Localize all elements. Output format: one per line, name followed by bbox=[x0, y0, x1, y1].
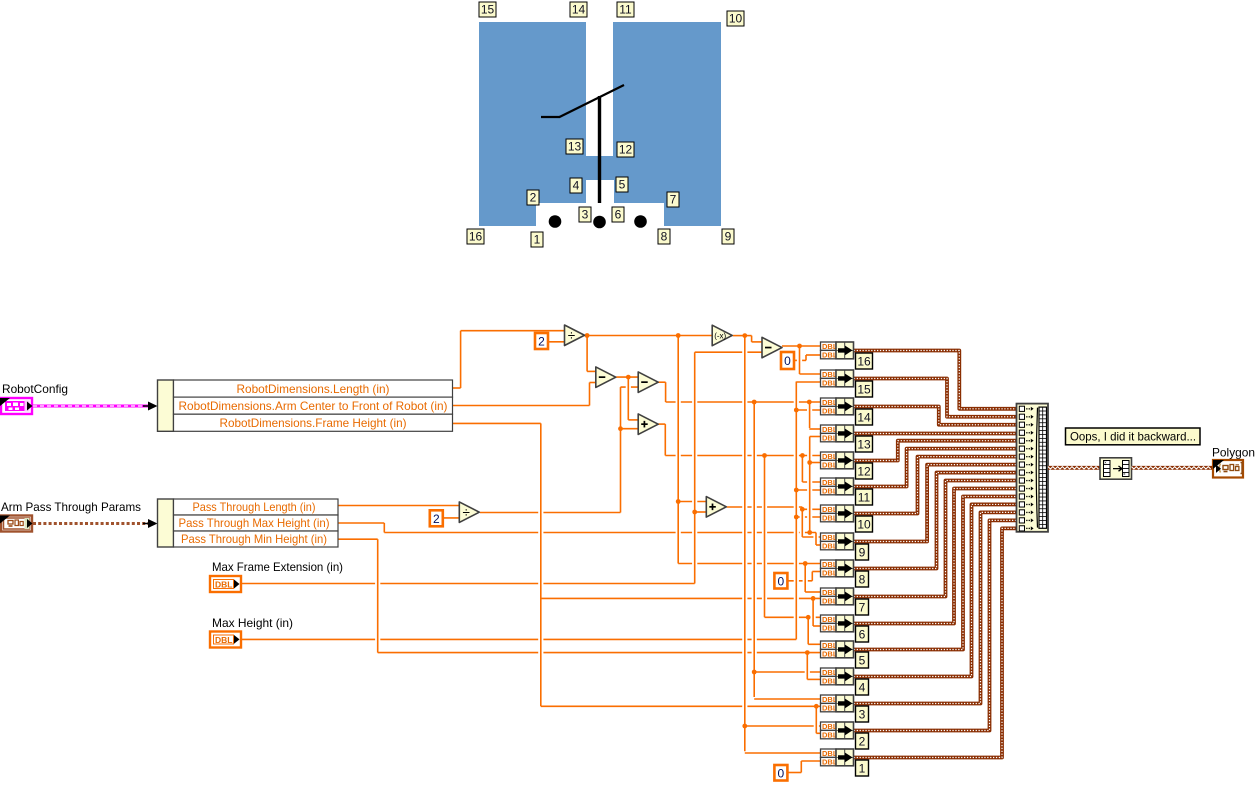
svg-text:×: × bbox=[1123, 472, 1126, 477]
wire drop subtract2 out bbox=[665, 382, 667, 402]
svg-text:13: 13 bbox=[857, 438, 871, 452]
wire to subtract1 top bbox=[587, 370, 596, 372]
bundle node 12 bbox=[836, 452, 854, 469]
cluster wire bundle 5 to array input 12 bbox=[854, 496, 1017, 649]
svg-text:2: 2 bbox=[538, 335, 545, 349]
DBL conversion pair bundle 8 bbox=[821, 560, 838, 577]
vertex label 2 bbox=[527, 190, 539, 205]
DBL conversion pair bundle 1 bbox=[821, 749, 838, 766]
wire to add1 top bbox=[628, 419, 638, 421]
svg-text:3: 3 bbox=[859, 708, 866, 722]
robot arm wrist line bbox=[541, 116, 560, 118]
robot body polygon (points 1-16) bbox=[479, 22, 721, 226]
bundle output label 16 bbox=[856, 353, 873, 369]
wire to bundle4 y bbox=[807, 678, 820, 680]
cluster wire bundle 16 to array input 1 bbox=[854, 351, 1017, 409]
wire drop PassMax to bundle9y bbox=[815, 533, 817, 546]
wire to bundle6 x bbox=[765, 616, 821, 618]
unbundle RobotDimensions bar bbox=[158, 380, 174, 431]
cluster wire bundle 2 to array input 15 bbox=[854, 520, 1017, 730]
svg-text:6: 6 bbox=[615, 208, 622, 222]
svg-text:15: 15 bbox=[481, 3, 495, 17]
wire const0c to bundle1 y seg1 bbox=[788, 772, 801, 774]
wire PassLength out of unbundle bbox=[338, 505, 459, 507]
bundle output label 11 bbox=[856, 489, 873, 505]
wire add2 to bundle10 x bbox=[727, 506, 803, 508]
svg-text:Pass Through Max Height (in): Pass Through Max Height (in) bbox=[179, 516, 330, 530]
bundle node 1 bbox=[836, 749, 854, 766]
bundle output label 1 bbox=[856, 760, 869, 776]
cluster wire bundle 8 to array input 9 bbox=[854, 473, 1017, 569]
add node 2 bbox=[706, 497, 726, 517]
svg-text:10: 10 bbox=[729, 12, 743, 26]
wire drop subtract2 to bundle13x bbox=[809, 402, 811, 428]
svg-text:×: × bbox=[1104, 460, 1107, 465]
svg-text:12: 12 bbox=[619, 143, 633, 157]
wire negate output bbox=[733, 335, 745, 337]
svg-text:(-x): (-x) bbox=[714, 331, 726, 340]
wire to subtract1 bottom bbox=[590, 382, 596, 384]
DBL conversion pair bundle 7 bbox=[821, 588, 838, 605]
wire junction dots bbox=[585, 333, 819, 728]
constant 2 (bottom divider) bbox=[430, 510, 443, 526]
wire PassMin to bundle5 y bbox=[378, 652, 821, 654]
cluster wire bundle 6 to array input 11 bbox=[854, 489, 1017, 624]
svg-text:10: 10 bbox=[857, 518, 871, 532]
wire drop div1 to subtract1 bbox=[586, 336, 588, 372]
wire drop add1 out bbox=[664, 424, 666, 455]
wire PassMin out of unbundle bbox=[338, 538, 378, 540]
wire to bundle2 x bbox=[745, 725, 821, 727]
DBL conversion pair bundle 11 bbox=[821, 478, 838, 495]
wire const0b jog bbox=[811, 572, 813, 581]
svg-text:14: 14 bbox=[572, 3, 586, 17]
vertex label 15 bbox=[479, 2, 496, 17]
bundle node 9 bbox=[836, 533, 854, 550]
vertex label 11 bbox=[617, 2, 634, 17]
svg-text:2: 2 bbox=[530, 191, 537, 205]
bundle output label 3 bbox=[856, 706, 869, 722]
svg-text:11: 11 bbox=[858, 491, 871, 505]
bundle node 8 bbox=[836, 560, 854, 577]
wire MaxHeight to bundle11 y bbox=[796, 489, 820, 491]
wire MaxHeight to bundle15 y bbox=[796, 381, 820, 383]
bundle node 15 bbox=[836, 370, 854, 387]
wire add1 branch to bundle11x bbox=[801, 456, 803, 483]
wire to bundle3 x bbox=[754, 698, 820, 700]
array wire build array to reverse node bbox=[1048, 466, 1100, 470]
svg-text:÷: ÷ bbox=[463, 505, 470, 520]
bundle node 7 bbox=[836, 588, 854, 605]
bundle node 5 bbox=[836, 641, 854, 658]
svg-text:Pass Through Length (in): Pass Through Length (in) bbox=[193, 500, 316, 514]
svg-text:Max Height (in): Max Height (in) bbox=[212, 616, 293, 630]
arrow into unbundle2 bbox=[148, 519, 158, 528]
wire riser MaxFrameExt bbox=[694, 352, 696, 583]
wire drop to bundle7x bbox=[804, 564, 806, 593]
unbundle2 row Pass Through Length (in) bbox=[174, 499, 339, 515]
bundle node 11 bbox=[836, 478, 854, 495]
DBL conversion pair bundle 9 bbox=[821, 533, 838, 550]
wire const2a to divider bbox=[548, 341, 565, 343]
svg-text:8: 8 bbox=[661, 230, 668, 244]
wire to bundle12 y bbox=[810, 462, 821, 464]
svg-text:5: 5 bbox=[859, 654, 866, 668]
wire divider2 output bbox=[480, 512, 621, 514]
wheel center bbox=[593, 216, 606, 229]
label Oops I did it backward bbox=[1066, 428, 1201, 445]
wire subtract2 output bbox=[658, 381, 665, 383]
wire const0c to bundle1 y seg2 bbox=[801, 760, 820, 762]
constant 0 (bundle8) bbox=[774, 573, 787, 589]
wire const2b to divider2 bbox=[443, 517, 460, 519]
vertex label 16 bbox=[467, 229, 484, 244]
wire FrameHeight to bundle7 y bbox=[541, 597, 821, 599]
wire subtract3 to bundle16 x bbox=[782, 345, 821, 347]
svg-text:6: 6 bbox=[859, 628, 866, 642]
svg-text:7: 7 bbox=[859, 601, 866, 615]
bundle node 3 bbox=[836, 695, 854, 712]
wire FrameHeight out of unbundle bbox=[452, 422, 541, 424]
svg-text:2: 2 bbox=[859, 735, 866, 749]
wire drop add1 branch bbox=[764, 456, 766, 618]
wire MaxHeight long bbox=[241, 638, 796, 640]
bundle output label 7 bbox=[856, 599, 869, 615]
vertex label 10 bbox=[727, 11, 744, 26]
wire drop negate bbox=[744, 336, 746, 752]
svg-text:Max Frame Extension (in): Max Frame Extension (in) bbox=[212, 560, 343, 574]
cluster wire bundle 7 to array input 10 bbox=[854, 481, 1017, 597]
constant 0 (bundle16) bbox=[781, 352, 794, 369]
wire PassMax riser to bundle13y bbox=[809, 437, 811, 533]
vertex label 3 bbox=[579, 207, 591, 222]
svg-text:RobotDimensions.Arm Center to: RobotDimensions.Arm Center to Front of R… bbox=[179, 399, 448, 413]
cluster wire bundle 10 to array input 7 bbox=[854, 457, 1017, 514]
unbundle1 row RobotDimensions.Length (in) bbox=[174, 380, 453, 397]
vertex label 7 bbox=[667, 192, 679, 207]
constant 0 (bundle1) bbox=[774, 765, 787, 781]
wire subtract2 to bundle14 x bbox=[666, 401, 821, 403]
wire to bundle5 x bbox=[808, 643, 820, 645]
cluster wire bundle 3 to array input 14 bbox=[854, 512, 1017, 703]
svg-text:8: 8 bbox=[859, 573, 866, 587]
svg-text:0: 0 bbox=[784, 354, 791, 368]
wire to bundle9 y bbox=[816, 544, 821, 546]
cluster wire bundle 12 to array input 5 bbox=[854, 441, 1017, 461]
svg-text:12: 12 bbox=[857, 465, 871, 479]
svg-text:RobotDimensions.Length (in): RobotDimensions.Length (in) bbox=[237, 382, 390, 396]
wire ArmCenter out of unbundle bbox=[452, 405, 590, 407]
wire to add1 bottom bbox=[621, 428, 639, 430]
wire add2 to bundle10 x stub bbox=[802, 508, 820, 510]
indicator Polygon bbox=[1213, 460, 1243, 478]
wire add1 to bundle12 x bbox=[665, 455, 820, 457]
wire const0a to bundle16 y seg1 bbox=[794, 359, 806, 361]
bundle output label 6 bbox=[856, 626, 869, 642]
svg-text:Oops, I did it backward...: Oops, I did it backward... bbox=[1070, 431, 1196, 444]
bundle output label 2 bbox=[856, 733, 869, 749]
wire to bundle11 x bbox=[802, 481, 820, 483]
robot arm vertical line bbox=[598, 96, 601, 203]
build array node bbox=[1017, 404, 1049, 532]
wire const0b to bundle8 y seg2 bbox=[812, 571, 820, 573]
cluster wire bundle 9 to array input 8 bbox=[854, 465, 1017, 542]
wire Length/2 to add2 top bbox=[678, 501, 706, 503]
bundle node 10 bbox=[836, 505, 854, 522]
wheel right bbox=[634, 215, 647, 228]
negate node (-x) bbox=[712, 325, 732, 346]
DBL conversion pair bundle 16 bbox=[821, 342, 838, 359]
svg-text:4: 4 bbox=[573, 179, 580, 193]
DBL conversion pair bundle 5 bbox=[821, 641, 838, 658]
svg-text:RobotDimensions.Frame Height (: RobotDimensions.Frame Height (in) bbox=[220, 416, 407, 430]
svg-text:11: 11 bbox=[619, 3, 632, 17]
DBL conversion pair bundle 15 bbox=[821, 370, 838, 387]
cluster wire bundle 1 to array input 16 bbox=[854, 528, 1017, 757]
unbundle1 row RobotDimensions.Frame Height (in) bbox=[174, 414, 453, 431]
wire const0a to bundle16 y seg2 bbox=[806, 354, 821, 356]
DBL conversion pair bundle 13 bbox=[821, 425, 838, 442]
wire crossing gaps bbox=[375, 351, 819, 728]
wire riser Length bbox=[460, 331, 462, 388]
wire drop Length/2 to add2 bbox=[677, 336, 679, 564]
wire divider1 output bbox=[584, 335, 713, 337]
vertex label 6 bbox=[612, 207, 624, 222]
svg-text:9: 9 bbox=[725, 230, 732, 244]
wire MaxHeight to bundle10 y bbox=[796, 516, 820, 518]
bundle output label 15 bbox=[856, 381, 873, 397]
bundle output label 13 bbox=[856, 436, 873, 452]
unbundle1 row RobotDimensions.Arm Center to Front of Robot (in) bbox=[174, 397, 453, 414]
wire drop PassMax bbox=[383, 523, 385, 533]
wire to bundle13 x bbox=[809, 428, 820, 430]
DBL conversion pair bundle 2 bbox=[821, 722, 838, 739]
cluster wire bundle 13 to array input 4 bbox=[854, 432, 1017, 436]
wire to subtract2 bottom bbox=[621, 386, 639, 388]
vertex label 13 bbox=[566, 139, 583, 154]
wire drop to bundle6y bbox=[812, 598, 814, 626]
svg-text:16: 16 bbox=[857, 355, 871, 369]
control Max Frame Extension DBL bbox=[210, 576, 241, 592]
wire ArmPassThrough cluster (brown dotted) bbox=[33, 522, 149, 525]
DBL conversion pair bundle 4 bbox=[821, 668, 838, 685]
wire add1 output bbox=[658, 423, 665, 425]
wire MaxFrameExt to subtract3 bottom bbox=[695, 351, 762, 353]
svg-text:0: 0 bbox=[778, 574, 785, 588]
DBL conversion pair bundle 3 bbox=[821, 695, 838, 712]
svg-text:3: 3 bbox=[582, 208, 589, 222]
subtract node 1 bbox=[596, 367, 616, 388]
robot arm diagonal line bbox=[560, 85, 625, 117]
bundle node 16 bbox=[836, 342, 854, 359]
svg-text:14: 14 bbox=[857, 411, 871, 425]
bundle output label 12 bbox=[856, 463, 873, 479]
bundle output label 5 bbox=[856, 652, 869, 668]
unbundle2 row Pass Through Min Height (in) bbox=[174, 531, 339, 547]
bundle node 4 bbox=[836, 668, 854, 685]
vertex label 12 bbox=[617, 142, 634, 157]
bundle output label 9 bbox=[856, 544, 869, 560]
svg-text:2: 2 bbox=[433, 512, 440, 526]
wire add2 branch to bundle9x bbox=[801, 509, 803, 537]
svg-text:1: 1 bbox=[534, 233, 541, 247]
array wire reverse node to Polygon bbox=[1132, 466, 1214, 470]
reverse 1D array node bbox=[1100, 458, 1132, 479]
svg-text:DBL: DBL bbox=[215, 635, 232, 645]
add node 1 bbox=[638, 414, 658, 435]
svg-text:4: 4 bbox=[859, 681, 866, 695]
subtract node 3 bbox=[762, 337, 782, 358]
wire PassMin drop to bundle4y bbox=[806, 653, 808, 680]
svg-text:0: 0 bbox=[778, 766, 785, 780]
wire drop subtract2 branch bbox=[753, 402, 755, 697]
svg-text:RobotConfig: RobotConfig bbox=[2, 382, 68, 396]
svg-text:1: 1 bbox=[859, 762, 866, 776]
svg-text:DBL: DBL bbox=[215, 580, 232, 590]
cluster wire bundle 11 to array input 6 bbox=[854, 449, 1017, 487]
wire to bundle6 y bbox=[813, 625, 820, 627]
wire riser MaxHeight bbox=[795, 382, 797, 640]
cluster wire bundle 4 to array input 13 bbox=[854, 504, 1017, 676]
wire to bundle1 x bbox=[745, 752, 821, 754]
subtract node 2 bbox=[638, 372, 658, 393]
wire const0b to bundle8 y seg1 bbox=[788, 580, 812, 582]
bundle output label 14 bbox=[856, 409, 873, 425]
wire MaxFrameExt to add2 bottom bbox=[695, 511, 707, 513]
wire negate junction to corner bbox=[745, 335, 752, 337]
wire to bundle2 y bbox=[816, 732, 820, 734]
wire Length to divider top bbox=[461, 330, 565, 332]
bundle output label 4 bbox=[856, 679, 869, 695]
divide node (Length/2) bbox=[565, 325, 585, 346]
wire MaxHeight to bundle14 y bbox=[796, 409, 820, 411]
wire Length out of unbundle bbox=[452, 387, 461, 389]
unbundle ArmPassThrough bar bbox=[158, 499, 174, 547]
wire drop to bundle5x bbox=[807, 617, 809, 644]
DBL conversion pair bundle 12 bbox=[821, 452, 838, 469]
DBL conversion pair bundle 6 bbox=[821, 615, 838, 632]
wire subtract1 output bbox=[616, 376, 638, 378]
svg-text:5: 5 bbox=[619, 178, 626, 192]
bundle node 13 bbox=[836, 425, 854, 442]
wire negate to subtract3 top bbox=[752, 341, 762, 343]
cluster wire bundle 15 to array input 2 bbox=[854, 379, 1017, 417]
terminal RobotConfig cluster control bbox=[0, 398, 33, 414]
wire PassMax long bbox=[384, 532, 816, 534]
vertex label 14 bbox=[570, 2, 587, 17]
DBL conversion pair bundle 14 bbox=[821, 398, 838, 415]
wire corner negate to subtract3 bbox=[751, 336, 753, 342]
vertex label 1 bbox=[531, 232, 543, 247]
wire riser ArmCenter bbox=[589, 383, 591, 406]
bundle node 14 bbox=[836, 398, 854, 415]
svg-text:7: 7 bbox=[670, 193, 677, 207]
wire FrameHeight to bundle3 y bbox=[541, 705, 821, 707]
wire to bundle9 x bbox=[802, 536, 820, 538]
bundle node 2 bbox=[836, 722, 854, 739]
vertex label 8 bbox=[658, 229, 670, 244]
wire riser FrameHeight bbox=[540, 423, 542, 706]
constant 2 (top divider) bbox=[535, 333, 548, 349]
arrow into unbundle1 bbox=[148, 402, 158, 411]
wire riser PassLength/2 bbox=[620, 387, 622, 512]
svg-text:Pass Through Min Height (in): Pass Through Min Height (in) bbox=[181, 532, 327, 546]
vertex label 4 bbox=[570, 178, 582, 193]
wheel left bbox=[549, 215, 562, 228]
wire PassMax out of unbundle bbox=[338, 522, 384, 524]
wire to bundle15 x bbox=[800, 373, 821, 375]
DBL conversion pair bundle 10 bbox=[821, 505, 838, 522]
wire RobotConfig cluster (magenta dashed) bbox=[33, 405, 149, 408]
cluster wire bundle 14 to array input 3 bbox=[854, 407, 1017, 425]
svg-text:15: 15 bbox=[857, 383, 871, 397]
svg-text:9: 9 bbox=[859, 546, 866, 560]
wire to bundle4 x bbox=[754, 671, 820, 673]
vertex label 5 bbox=[616, 177, 628, 192]
wire const0a jog bbox=[805, 355, 807, 360]
bundle node 6 bbox=[836, 615, 854, 632]
wire to bundle13 y bbox=[810, 436, 821, 438]
wire to bundle7 x bbox=[805, 591, 820, 593]
svg-text:÷: ÷ bbox=[568, 328, 575, 343]
svg-text:Polygon: Polygon bbox=[1212, 446, 1255, 460]
bundle output label 8 bbox=[856, 571, 869, 587]
divide node (PassLength/2) bbox=[459, 502, 479, 523]
wire Length/2 to bundle8 x bbox=[678, 563, 820, 565]
wire MaxFrameExt long bbox=[241, 583, 695, 585]
control Max Height DBL bbox=[210, 632, 241, 648]
wire drop subtract3 branch bbox=[799, 346, 801, 374]
bundle output label 10 bbox=[856, 516, 873, 532]
wire const0c jog bbox=[800, 761, 802, 773]
wire drop subtract1 to add1 bbox=[627, 377, 629, 420]
terminal ArmPassThrough cluster control bbox=[0, 516, 33, 532]
vertex label 9 bbox=[722, 229, 734, 244]
svg-text:13: 13 bbox=[568, 140, 582, 154]
svg-text:16: 16 bbox=[469, 230, 483, 244]
unbundle2 row Pass Through Max Height (in) bbox=[174, 515, 339, 531]
wire FrameHeight drop to bundle2y bbox=[815, 706, 817, 733]
svg-text:Arm Pass Through Params: Arm Pass Through Params bbox=[1, 500, 141, 514]
wire drop PassMin bbox=[377, 539, 379, 652]
